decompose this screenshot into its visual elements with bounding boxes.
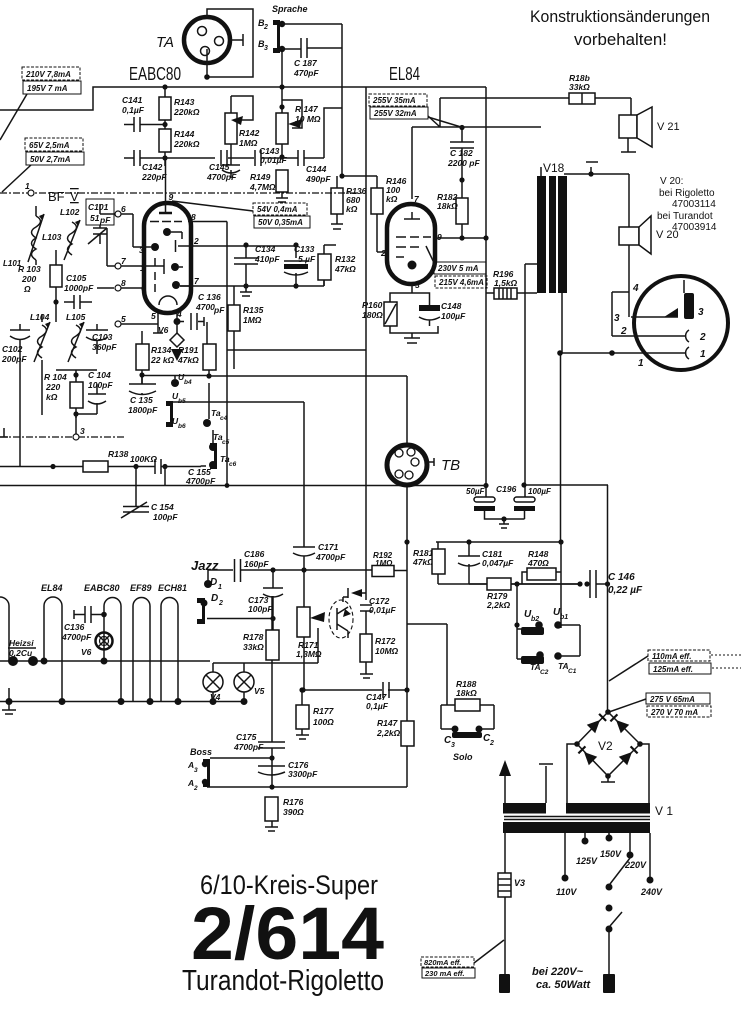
svg-text:R132: R132 xyxy=(335,254,356,264)
svg-text:50V 2,7mA: 50V 2,7mA xyxy=(30,155,71,164)
svg-text:54V 0,4mA: 54V 0,4mA xyxy=(257,205,298,214)
svg-text:9: 9 xyxy=(437,232,442,242)
svg-text:2: 2 xyxy=(489,740,494,747)
svg-text:Turandot-Rigoletto: Turandot-Rigoletto xyxy=(182,965,384,997)
svg-text:V4: V4 xyxy=(210,692,221,702)
svg-text:100pF: 100pF xyxy=(153,512,178,522)
svg-text:0,2Cu: 0,2Cu xyxy=(9,648,33,658)
svg-text:47003914: 47003914 xyxy=(672,222,717,233)
svg-text:410pF: 410pF xyxy=(254,254,280,264)
svg-text:bei Turandot: bei Turandot xyxy=(657,211,713,222)
svg-text:C 136: C 136 xyxy=(198,292,221,302)
svg-text:c4: c4 xyxy=(220,415,228,422)
svg-text:1MΩ: 1MΩ xyxy=(239,138,258,148)
svg-text:820mA eff.: 820mA eff. xyxy=(424,958,462,967)
svg-text:L103: L103 xyxy=(42,232,62,242)
svg-text:51: 51 xyxy=(90,213,100,223)
svg-text:R142: R142 xyxy=(239,128,260,138)
svg-text:pF: pF xyxy=(213,305,225,315)
svg-text:100µF: 100µF xyxy=(528,487,552,496)
svg-text:4700pF: 4700pF xyxy=(185,476,216,486)
svg-text:18kΩ: 18kΩ xyxy=(456,688,477,698)
svg-text:R134: R134 xyxy=(151,345,172,355)
svg-text:V 20: V 20 xyxy=(656,229,679,241)
svg-text:100KΩ: 100KΩ xyxy=(130,454,157,464)
svg-text:C105: C105 xyxy=(66,273,87,283)
svg-text:C101: C101 xyxy=(88,202,109,212)
svg-text:R191: R191 xyxy=(178,345,199,355)
svg-text:EL84: EL84 xyxy=(41,583,63,593)
svg-text:220kΩ: 220kΩ xyxy=(173,139,200,149)
svg-text:R 103: R 103 xyxy=(18,264,41,274)
svg-text:200pF: 200pF xyxy=(1,354,27,364)
svg-text:0,01µF: 0,01µF xyxy=(260,155,287,165)
svg-text:275 V 65mA: 275 V 65mA xyxy=(649,695,695,704)
svg-text:bei Rigoletto: bei Rigoletto xyxy=(659,188,715,199)
svg-text:R160: R160 xyxy=(362,300,383,310)
svg-text:22 kΩ: 22 kΩ xyxy=(150,355,175,365)
svg-text:255V 35mA: 255V 35mA xyxy=(372,96,416,105)
svg-text:V 1: V 1 xyxy=(655,804,673,818)
svg-text:18kΩ: 18kΩ xyxy=(437,201,458,211)
svg-text:6: 6 xyxy=(121,204,126,214)
svg-text:4700pF: 4700pF xyxy=(61,632,92,642)
svg-text:4700pF: 4700pF xyxy=(315,552,346,562)
svg-text:R138: R138 xyxy=(108,449,129,459)
svg-text:230V 5 mA: 230V 5 mA xyxy=(437,264,479,273)
svg-text:0,22 µF: 0,22 µF xyxy=(608,585,643,596)
svg-text:C 187: C 187 xyxy=(294,58,318,68)
svg-text:R147: R147 xyxy=(377,718,399,728)
svg-text:125mA eff.: 125mA eff. xyxy=(653,665,693,674)
svg-text:C196: C196 xyxy=(496,484,517,494)
svg-text:5: 5 xyxy=(151,311,156,321)
svg-text:C186: C186 xyxy=(244,549,265,559)
svg-text:R143: R143 xyxy=(174,97,195,107)
svg-text:c5: c5 xyxy=(222,439,230,446)
svg-text:Solo: Solo xyxy=(453,752,473,762)
svg-text:270 V 70 mA: 270 V 70 mA xyxy=(650,708,698,717)
svg-text:L102: L102 xyxy=(60,207,80,217)
svg-text:V6: V6 xyxy=(81,647,92,657)
svg-text:390Ω: 390Ω xyxy=(283,807,304,817)
svg-text:33kΩ: 33kΩ xyxy=(243,642,264,652)
svg-text:Sprache: Sprache xyxy=(272,4,308,14)
svg-text:3300pF: 3300pF xyxy=(288,769,318,779)
svg-text:V3: V3 xyxy=(514,878,525,888)
svg-text:47003114: 47003114 xyxy=(672,199,716,210)
svg-text:1800pF: 1800pF xyxy=(128,405,158,415)
svg-text:125V: 125V xyxy=(576,856,598,866)
svg-text:3: 3 xyxy=(80,426,85,436)
svg-text:50µF: 50µF xyxy=(466,487,486,496)
svg-text:8: 8 xyxy=(191,212,196,222)
svg-text:R144: R144 xyxy=(174,129,195,139)
svg-text:C148: C148 xyxy=(441,301,462,311)
svg-text:EABC80: EABC80 xyxy=(129,63,181,84)
svg-text:ca. 50Watt: ca. 50Watt xyxy=(536,979,592,991)
svg-text:4700pF: 4700pF xyxy=(206,172,237,182)
svg-text:5 µF: 5 µF xyxy=(298,254,316,264)
svg-text:8: 8 xyxy=(121,278,126,288)
svg-text:C171: C171 xyxy=(318,542,339,552)
svg-text:230 mA eff.: 230 mA eff. xyxy=(424,969,465,978)
svg-text:C 154: C 154 xyxy=(151,502,174,512)
svg-text:C136: C136 xyxy=(64,622,85,632)
svg-text:R177: R177 xyxy=(313,706,335,716)
svg-text:1: 1 xyxy=(700,349,706,360)
svg-text:C 104: C 104 xyxy=(88,370,111,380)
svg-text:vorbehalten!: vorbehalten! xyxy=(574,30,667,49)
svg-text:255V 32mA: 255V 32mA xyxy=(373,109,417,118)
svg-text:33kΩ: 33kΩ xyxy=(569,82,590,92)
svg-text:6: 6 xyxy=(141,283,146,293)
svg-text:2: 2 xyxy=(699,332,706,343)
svg-text:C133: C133 xyxy=(294,244,315,254)
svg-text:1000pF: 1000pF xyxy=(64,283,94,293)
svg-text:C142: C142 xyxy=(142,162,163,172)
svg-text:EL84: EL84 xyxy=(389,64,420,84)
svg-text:Boss: Boss xyxy=(190,747,212,757)
svg-text:0,047µF: 0,047µF xyxy=(482,558,514,568)
svg-text:4700pF: 4700pF xyxy=(233,742,264,752)
svg-text:C144: C144 xyxy=(306,164,327,174)
svg-text:2,2kΩ: 2,2kΩ xyxy=(376,728,401,738)
svg-text:110mA eff.: 110mA eff. xyxy=(652,652,691,661)
svg-text:EF89: EF89 xyxy=(130,583,152,593)
svg-text:Heizsi: Heizsi xyxy=(9,638,34,648)
svg-text:65V 2,5mA: 65V 2,5mA xyxy=(29,141,70,150)
svg-text:D: D xyxy=(211,593,218,604)
svg-text:1,3MΩ: 1,3MΩ xyxy=(296,649,322,659)
svg-text:1MΩ: 1MΩ xyxy=(243,315,262,325)
svg-text:R135: R135 xyxy=(243,305,264,315)
svg-text:3: 3 xyxy=(264,45,268,52)
svg-text:160pF: 160pF xyxy=(244,559,269,569)
svg-text:ECH81: ECH81 xyxy=(158,583,187,593)
svg-text:kΩ: kΩ xyxy=(346,204,358,214)
svg-text:C175: C175 xyxy=(236,732,257,742)
svg-text:2: 2 xyxy=(193,236,199,246)
svg-text:200: 200 xyxy=(21,274,36,284)
svg-text:220pF: 220pF xyxy=(141,172,167,182)
svg-text:0,1µF: 0,1µF xyxy=(122,105,145,115)
svg-text:Konstruktionsänderungen: Konstruktionsänderungen xyxy=(530,7,710,26)
svg-text:bei 220V~: bei 220V~ xyxy=(532,966,584,978)
svg-text:47kΩ: 47kΩ xyxy=(177,355,199,365)
svg-text:2: 2 xyxy=(218,600,223,607)
svg-text:1: 1 xyxy=(638,358,644,369)
svg-text:C 182: C 182 xyxy=(450,148,473,158)
svg-text:4700: 4700 xyxy=(195,302,215,312)
svg-text:L104: L104 xyxy=(30,312,50,322)
svg-text:pF: pF xyxy=(99,215,111,225)
svg-text:b4: b4 xyxy=(184,379,192,386)
svg-text:0,1µF: 0,1µF xyxy=(366,701,389,711)
svg-text:3: 3 xyxy=(194,767,198,774)
svg-text:BF: BF xyxy=(48,189,65,204)
svg-text:R 104: R 104 xyxy=(44,372,67,382)
svg-text:C145: C145 xyxy=(209,162,230,172)
svg-text:V 20:: V 20: xyxy=(660,176,683,187)
svg-text:150V: 150V xyxy=(600,849,622,859)
svg-text:220kΩ: 220kΩ xyxy=(173,107,200,117)
svg-text:C1: C1 xyxy=(568,668,577,675)
svg-text:V18: V18 xyxy=(543,161,565,175)
svg-text:100pF: 100pF xyxy=(248,604,273,614)
svg-text:100pF: 100pF xyxy=(88,380,113,390)
svg-text:490pF: 490pF xyxy=(305,174,331,184)
svg-text:180Ω: 180Ω xyxy=(362,310,383,320)
svg-text:470pF: 470pF xyxy=(293,68,319,78)
svg-text:TA: TA xyxy=(156,34,174,51)
svg-text:10MΩ: 10MΩ xyxy=(375,646,399,656)
svg-text:b5: b5 xyxy=(178,398,186,405)
svg-text:c6: c6 xyxy=(229,461,237,468)
svg-text:2: 2 xyxy=(380,248,386,258)
svg-text:1: 1 xyxy=(140,263,145,273)
svg-text:TB: TB xyxy=(441,457,460,474)
svg-text:V: V xyxy=(70,189,79,204)
svg-text:3: 3 xyxy=(415,280,420,290)
svg-text:b1: b1 xyxy=(560,614,568,621)
svg-text:C 146: C 146 xyxy=(608,572,635,583)
svg-text:220: 220 xyxy=(45,382,60,392)
svg-text:2: 2 xyxy=(620,326,627,337)
svg-text:V5: V5 xyxy=(254,686,265,696)
svg-text:3: 3 xyxy=(139,245,144,255)
svg-text:240V: 240V xyxy=(640,887,663,897)
svg-text:5: 5 xyxy=(121,314,126,324)
svg-text:1,5kΩ: 1,5kΩ xyxy=(494,278,518,288)
svg-text:47kΩ: 47kΩ xyxy=(334,264,356,274)
svg-text:C2: C2 xyxy=(540,669,549,676)
svg-text:b6: b6 xyxy=(178,423,186,430)
svg-text:C 135: C 135 xyxy=(130,395,153,405)
svg-text:47kΩ: 47kΩ xyxy=(412,557,434,567)
svg-text:V 21: V 21 xyxy=(657,121,680,133)
svg-text:9: 9 xyxy=(169,192,174,202)
svg-text:kΩ: kΩ xyxy=(46,392,58,402)
svg-text:100µF: 100µF xyxy=(441,311,466,321)
svg-text:L105: L105 xyxy=(66,312,86,322)
svg-text:2/614: 2/614 xyxy=(191,892,384,975)
svg-text:360pF: 360pF xyxy=(92,342,117,352)
svg-text:C141: C141 xyxy=(122,95,143,105)
svg-text:Ω: Ω xyxy=(23,284,31,294)
svg-text:470Ω: 470Ω xyxy=(527,558,549,568)
svg-text:R178: R178 xyxy=(243,632,264,642)
svg-text:110V: 110V xyxy=(556,887,577,897)
svg-text:R176: R176 xyxy=(283,797,304,807)
svg-text:1: 1 xyxy=(218,584,222,591)
svg-text:100Ω: 100Ω xyxy=(313,717,334,727)
svg-text:10 MΩ: 10 MΩ xyxy=(295,114,321,124)
svg-text:215V 4,6mA: 215V 4,6mA xyxy=(438,278,484,287)
svg-text:1: 1 xyxy=(25,181,30,191)
svg-text:2,2kΩ: 2,2kΩ xyxy=(486,600,511,610)
svg-text:R149: R149 xyxy=(250,172,271,182)
svg-text:R 147: R 147 xyxy=(295,104,319,114)
svg-text:210V 7,8mA: 210V 7,8mA xyxy=(25,70,71,79)
svg-text:R172: R172 xyxy=(375,636,396,646)
svg-text:4,7MΩ: 4,7MΩ xyxy=(249,182,276,192)
svg-text:4: 4 xyxy=(632,283,639,294)
svg-text:2: 2 xyxy=(193,785,198,792)
svg-text:0,01µF: 0,01µF xyxy=(369,605,396,615)
svg-text:195V 7 mA: 195V 7 mA xyxy=(27,84,68,93)
svg-text:3: 3 xyxy=(451,742,455,749)
svg-text:V2: V2 xyxy=(598,739,613,753)
svg-text:50V 0,35mA: 50V 0,35mA xyxy=(258,218,303,227)
svg-text:2200 pF: 2200 pF xyxy=(447,158,480,168)
svg-text:3: 3 xyxy=(698,307,704,318)
svg-text:2: 2 xyxy=(263,24,268,31)
svg-text:EABC80: EABC80 xyxy=(84,583,120,593)
svg-text:3: 3 xyxy=(614,313,620,324)
svg-text:kΩ: kΩ xyxy=(386,194,398,204)
